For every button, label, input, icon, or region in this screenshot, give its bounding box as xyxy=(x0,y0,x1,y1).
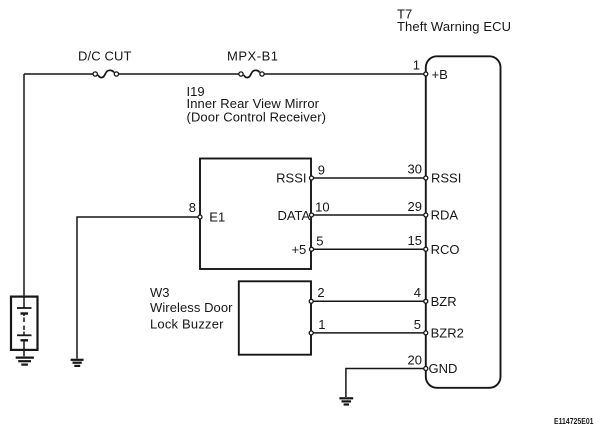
svg-text:1: 1 xyxy=(413,57,420,72)
svg-text:29: 29 xyxy=(408,199,422,214)
svg-text:Lock Buzzer: Lock Buzzer xyxy=(150,317,224,332)
svg-text:DATA: DATA xyxy=(277,208,310,223)
svg-text:RDA: RDA xyxy=(431,208,459,223)
svg-text:BZR2: BZR2 xyxy=(431,326,464,341)
svg-text:E1: E1 xyxy=(209,210,225,225)
svg-text:Theft Warning ECU: Theft Warning ECU xyxy=(397,19,511,34)
svg-text:D/C CUT: D/C CUT xyxy=(78,48,132,63)
svg-text:RSSI: RSSI xyxy=(276,171,306,186)
svg-text:20: 20 xyxy=(408,353,422,368)
svg-text:+B: +B xyxy=(432,67,448,82)
svg-text:(Door Control Receiver): (Door Control Receiver) xyxy=(187,110,327,125)
svg-text:4: 4 xyxy=(414,285,421,300)
svg-text:15: 15 xyxy=(408,233,422,248)
svg-text:+5: +5 xyxy=(291,242,306,257)
svg-text:8: 8 xyxy=(189,200,196,215)
svg-text:Wireless Door: Wireless Door xyxy=(150,300,233,315)
svg-text:GND: GND xyxy=(429,361,458,376)
svg-text:RCO: RCO xyxy=(431,242,460,257)
svg-text:BZR: BZR xyxy=(431,294,457,309)
svg-text:E114725E01: E114725E01 xyxy=(554,416,594,426)
svg-text:2: 2 xyxy=(317,285,324,300)
svg-text:5: 5 xyxy=(414,317,421,332)
svg-text:30: 30 xyxy=(408,162,422,177)
svg-text:1: 1 xyxy=(318,317,325,332)
svg-text:5: 5 xyxy=(316,233,323,248)
svg-text:10: 10 xyxy=(315,199,329,214)
svg-text:W3: W3 xyxy=(150,285,170,300)
svg-text:RSSI: RSSI xyxy=(431,171,461,186)
svg-text:MPX-B1: MPX-B1 xyxy=(227,48,278,63)
svg-text:9: 9 xyxy=(318,162,325,177)
